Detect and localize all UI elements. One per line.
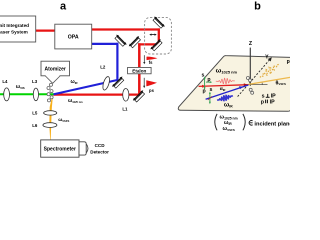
s/p polarization marker on red beam bbox=[201, 72, 212, 90]
etalon box bbox=[128, 67, 152, 73]
lens L4 bbox=[2, 79, 9, 101]
red beam (panel b) bbox=[199, 83, 249, 88]
svg-text:b: b bbox=[254, 1, 261, 13]
ps pulse marker bbox=[143, 78, 157, 93]
svg-text:Atomizer: Atomizer bbox=[44, 67, 65, 73]
svg-text:p: p bbox=[287, 59, 290, 65]
delay stage dashed box bbox=[145, 17, 172, 54]
svg-text:s: s bbox=[201, 72, 204, 78]
bracketed beam list bbox=[215, 114, 245, 132]
sample plane bbox=[178, 56, 291, 112]
label p (top right, cut) bbox=[287, 59, 290, 65]
svg-text:Spectrometer: Spectrometer bbox=[44, 147, 76, 153]
angle arc theta VSFS bbox=[261, 82, 263, 85]
spectrometer box bbox=[41, 140, 79, 157]
fs pulse marker bbox=[143, 55, 157, 65]
mirror C (etalon line corner) bbox=[128, 35, 142, 49]
orange VSFS beam to spectrometer bbox=[49, 95, 53, 140]
wire: red connector laser to OPA bbox=[36, 30, 56, 32]
lens L3 bbox=[32, 79, 38, 101]
svg-text:ps: ps bbox=[149, 88, 155, 93]
s/p polarization marker on blue beam bbox=[203, 87, 213, 104]
label element-of incident plane bbox=[249, 120, 292, 127]
svg-text:ω1025 nm: ω1025 nm bbox=[216, 67, 238, 74]
svg-text:a: a bbox=[60, 1, 67, 13]
label s perp IP bbox=[262, 94, 277, 100]
red pulse squiggle bbox=[216, 78, 235, 84]
svg-text:IP: IP bbox=[270, 99, 275, 105]
blue pulse squiggle bbox=[217, 95, 233, 100]
svg-text:Y: Y bbox=[265, 54, 269, 60]
wire: blue beam OPA output bbox=[92, 43, 119, 45]
svg-text:fs: fs bbox=[149, 60, 153, 65]
yellow scattered beam line bbox=[249, 77, 292, 84]
svg-text:p: p bbox=[207, 77, 210, 83]
mirror A (delay top) bbox=[152, 16, 166, 30]
blue beam (panel b) bbox=[206, 85, 249, 99]
panel label a bbox=[60, 1, 67, 13]
label omega 1025nm (panel a) bbox=[68, 98, 83, 104]
wire: green visible beam bbox=[0, 93, 54, 95]
lens L6 bbox=[32, 123, 57, 128]
svg-text:L2: L2 bbox=[100, 65, 106, 70]
droplet stream bbox=[47, 83, 53, 102]
atomizer box bbox=[41, 61, 70, 76]
mirror B (delay bottom) bbox=[149, 38, 163, 52]
wire: red beam OPA to delay box bbox=[92, 28, 160, 30]
svg-text:Unit Integrated: Unit Integrated bbox=[0, 23, 29, 28]
wire: blue diagonal to droplets through L2 bbox=[53, 80, 118, 95]
svg-text:Laser System: Laser System bbox=[0, 30, 28, 35]
wire: blue vertical bbox=[116, 43, 118, 81]
wire: red vertical through etalon bbox=[138, 43, 141, 95]
svg-text:L6: L6 bbox=[32, 123, 38, 128]
label omega 1025nm (panel b) bbox=[216, 67, 238, 74]
svg-text:θVSFS: θVSFS bbox=[276, 80, 287, 86]
svg-text:s: s bbox=[210, 87, 213, 93]
wire: red vertical in delay stage bbox=[158, 28, 160, 45]
svg-text:L5: L5 bbox=[32, 111, 38, 116]
svg-text:L4: L4 bbox=[2, 79, 8, 84]
svg-text:Etalon: Etalon bbox=[132, 69, 146, 74]
mirror F (blue bottom corner) bbox=[111, 76, 125, 90]
wire: red return from delay stage bbox=[138, 43, 160, 45]
svg-text:L3: L3 bbox=[32, 79, 38, 84]
svg-text:CCD: CCD bbox=[95, 143, 106, 148]
label omega VIS bbox=[16, 84, 25, 90]
delay translation arrow bbox=[149, 34, 156, 36]
svg-text:incident plane: incident plane bbox=[254, 121, 290, 127]
atomizer nozzle funnel bbox=[45, 75, 60, 83]
label p parallel IP bbox=[261, 99, 275, 105]
label CCD Detector bbox=[90, 143, 109, 154]
mirror E (blue corner top) bbox=[114, 34, 128, 48]
wire: red beam to droplets through L1 bbox=[53, 93, 140, 95]
yellow VSFS pulse squiggle bbox=[260, 64, 279, 77]
OPA box bbox=[55, 24, 92, 49]
svg-text:p: p bbox=[203, 89, 206, 95]
panel label b bbox=[254, 1, 261, 13]
black horizontal angle reference bbox=[249, 84, 268, 86]
Z axis bbox=[249, 41, 253, 86]
label omega IR (panel a) bbox=[71, 79, 78, 85]
Y axis bbox=[238, 54, 272, 96]
label alpha IR bbox=[220, 87, 226, 92]
laser box bbox=[0, 16, 36, 42]
svg-text:Detector: Detector bbox=[90, 149, 109, 154]
lens L1 bbox=[122, 89, 129, 112]
label theta VSFS bbox=[276, 80, 287, 86]
lens L2 bbox=[100, 65, 111, 91]
label omega IR (panel b) bbox=[224, 102, 233, 109]
mirror D (red bottom corner) bbox=[132, 89, 146, 103]
svg-text:OPA: OPA bbox=[68, 34, 79, 40]
droplet chain (panel b) bbox=[246, 77, 253, 95]
svg-text:L1: L1 bbox=[122, 107, 128, 112]
CCD detector shape bbox=[79, 142, 88, 155]
lens L5 bbox=[32, 111, 57, 116]
label omega VSFS bbox=[58, 117, 69, 123]
